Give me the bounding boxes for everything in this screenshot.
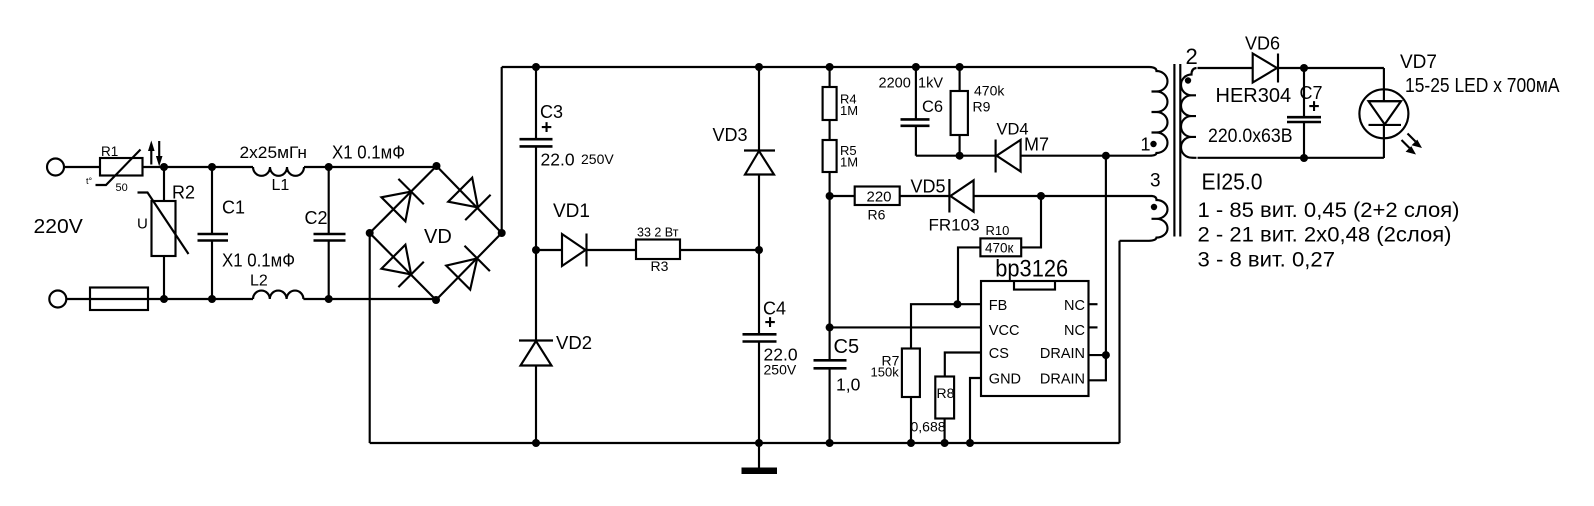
- node junction R7 bottom rail: [907, 439, 915, 447]
- svg-text:R9: R9: [973, 99, 991, 115]
- svg-text:150k: 150k: [871, 365, 900, 380]
- svg-text:FR103: FR103: [929, 216, 980, 235]
- transformer T1 core: [1174, 64, 1180, 237]
- node junction C1 bottom: [208, 295, 216, 303]
- svg-text:R3: R3: [651, 258, 669, 274]
- svg-text:R1: R1: [101, 144, 118, 159]
- svg-text:R10: R10: [986, 223, 1010, 238]
- wire drain line up to transformer: [1105, 156, 1107, 355]
- LED light arrow 1: [1408, 134, 1416, 142]
- svg-text:R6: R6: [868, 207, 886, 223]
- node junction VD3 top rail: [755, 63, 763, 71]
- svg-text:+: +: [765, 313, 776, 334]
- node junction FB: [953, 300, 961, 308]
- resistor R9: [959, 67, 961, 91]
- node junction C5 bottom rail: [826, 439, 834, 447]
- wire winding 3 return to bottom rail: [1118, 241, 1120, 443]
- svg-text:C1: C1: [222, 198, 245, 218]
- chip notch: [1014, 282, 1055, 290]
- svg-text:1: 1: [1141, 135, 1151, 155]
- node junction R9 top rail: [956, 63, 964, 71]
- diode bridge VD arm bottom-right: [436, 233, 502, 300]
- node junction C4 top: [755, 246, 763, 254]
- svg-text:NC: NC: [1064, 298, 1085, 314]
- diode VD5: [948, 179, 950, 213]
- varistor R2: [163, 167, 165, 299]
- wire bottom rail: [370, 442, 1120, 444]
- wire R4 to R5: [829, 120, 831, 140]
- node junction drain top: [1102, 152, 1110, 160]
- resistor R4: [829, 67, 831, 87]
- svg-text:22.0: 22.0: [541, 150, 575, 170]
- LED light arrow 2: [1402, 140, 1410, 148]
- svg-text:220: 220: [867, 189, 892, 206]
- wire bridge plus up to top rail: [501, 67, 503, 233]
- svg-text:1kV: 1kV: [918, 76, 943, 92]
- svg-text:C5: C5: [834, 336, 860, 358]
- svg-text:220V: 220V: [34, 216, 84, 238]
- wire VCC pin to left rail: [830, 326, 981, 328]
- node junction R4 top rail: [826, 63, 834, 71]
- svg-text:CS: CS: [989, 346, 1009, 362]
- svg-text:Х1 0.1мФ: Х1 0.1мФ: [332, 142, 405, 163]
- resistor R5: [823, 140, 837, 172]
- resistor R8: [935, 377, 954, 419]
- resistor R7: [902, 349, 920, 398]
- transformer winding 3 (aux): [1120, 196, 1168, 241]
- inductor L2: [253, 291, 303, 299]
- svg-text:R2: R2: [172, 183, 195, 203]
- node bridge bottom corner: [432, 296, 440, 304]
- node junction C1 top: [208, 163, 216, 171]
- capacitor C7: [1303, 68, 1305, 158]
- svg-text:VD2: VD2: [556, 332, 592, 353]
- svg-text:VD3: VD3: [713, 125, 748, 145]
- svg-text:+: +: [1309, 97, 1320, 118]
- svg-text:t°: t°: [86, 176, 93, 186]
- svg-text:2 - 21 вит. 2х0,48 (2слоя): 2 - 21 вит. 2х0,48 (2слоя): [1198, 222, 1452, 246]
- capacitor C5: [814, 360, 847, 368]
- svg-text:C2: C2: [305, 208, 328, 228]
- svg-text:2х25мГн: 2х25мГн: [240, 144, 308, 162]
- op-amp U1 bp3126 chip body: [981, 281, 1089, 396]
- wire output bottom: [1198, 157, 1384, 159]
- svg-text:Х1 0.1мФ: Х1 0.1мФ: [222, 250, 295, 271]
- wire L1 to bridge top: [304, 166, 437, 168]
- node bridge right corner: [498, 229, 506, 237]
- winding 2 polarity dot: [1185, 77, 1191, 83]
- svg-text:VD: VD: [424, 226, 452, 248]
- resistor R1 (thermistor 50): [100, 158, 143, 176]
- svg-text:0,688: 0,688: [911, 419, 946, 435]
- wire GND pin to bottom rail: [970, 378, 981, 443]
- resistor R6: [830, 195, 855, 197]
- wire bridge minus to bottom rail: [369, 233, 371, 443]
- svg-text:1М: 1М: [840, 155, 858, 170]
- node junction DRAIN: [1102, 351, 1110, 359]
- capacitor C6: [915, 67, 917, 156]
- node junction R9 bottom: [956, 152, 964, 160]
- node junction C2 bottom: [325, 295, 333, 303]
- node junction GND bottom rail: [966, 439, 974, 447]
- wire L2 to bridge bottom: [303, 298, 436, 300]
- diode bridge VD arm top-left: [370, 166, 437, 233]
- svg-text:U: U: [137, 216, 148, 233]
- svg-text:250V: 250V: [764, 362, 797, 378]
- ground: [758, 443, 760, 468]
- wire R1 to bridge (top filter wire): [143, 166, 254, 168]
- svg-text:L2: L2: [250, 273, 268, 290]
- node input terminal L: [47, 159, 64, 176]
- node junction R5/R6: [826, 192, 834, 200]
- node junction C6 top rail: [912, 63, 920, 71]
- svg-text:1 - 85 вит. 0,45 (2+2 слоя): 1 - 85 вит. 0,45 (2+2 слоя): [1198, 198, 1460, 222]
- svg-text:DRAIN: DRAIN: [1040, 346, 1085, 362]
- diode bridge VD arm top-right: [437, 166, 502, 233]
- svg-text:2: 2: [1186, 44, 1198, 69]
- wire CS pin to R8: [945, 353, 981, 377]
- svg-text:VD6: VD6: [1245, 34, 1280, 54]
- svg-text:GND: GND: [989, 372, 1021, 388]
- svg-text:1,0: 1,0: [836, 375, 861, 395]
- node bridge top corner: [433, 162, 441, 170]
- bridge diode bottom-left: [381, 245, 411, 275]
- diode VD6: [1253, 54, 1277, 83]
- svg-text:3: 3: [1150, 171, 1161, 192]
- svg-text:1М: 1М: [840, 103, 858, 118]
- node input terminal N: [49, 291, 66, 308]
- surge arrow up: [150, 147, 152, 165]
- capacitor C1: [211, 167, 213, 299]
- svg-text:VD5: VD5: [911, 177, 946, 197]
- wire R10 left to FB node: [958, 247, 980, 304]
- wire winding 2 to VD6: [1198, 67, 1253, 69]
- svg-text:+: +: [541, 118, 552, 139]
- diode VD1: [536, 249, 562, 251]
- svg-text:50: 50: [116, 182, 128, 194]
- svg-text:EI25.0: EI25.0: [1202, 169, 1263, 195]
- capacitor C2: [328, 167, 330, 299]
- wire terminal L to R1: [64, 166, 100, 168]
- transformer winding 1 (primary): [1150, 67, 1168, 156]
- inductor L1: [253, 167, 304, 176]
- winding 1 polarity dot: [1150, 141, 1156, 147]
- svg-text:470k: 470k: [974, 83, 1005, 99]
- resistor R10: [980, 238, 1021, 256]
- svg-text:NC: NC: [1064, 323, 1085, 339]
- node junction C4 bottom rail: [755, 439, 763, 447]
- svg-text:M7: M7: [1024, 135, 1049, 155]
- diode bridge VD arm bottom-left: [370, 233, 436, 300]
- diode VD4: [995, 140, 997, 173]
- capacitor C4: [758, 250, 760, 443]
- svg-text:15-25 LED x 700мА: 15-25 LED x 700мА: [1405, 75, 1560, 97]
- bridge diode bottom-right: [446, 258, 477, 289]
- transformer winding 2 (secondary): [1181, 68, 1197, 158]
- wire DRAIN pin 1: [1089, 354, 1106, 356]
- svg-text:HER304: HER304: [1216, 85, 1292, 107]
- svg-text:VD7: VD7: [1400, 52, 1437, 73]
- node junction C7 top: [1300, 64, 1308, 72]
- svg-text:FB: FB: [989, 298, 1008, 314]
- node junction R1/R2: [160, 163, 168, 171]
- svg-text:L1: L1: [272, 177, 290, 194]
- svg-text:DRAIN: DRAIN: [1040, 372, 1085, 388]
- wire terminal N through fuse: [67, 298, 254, 300]
- svg-text:250V: 250V: [581, 151, 614, 167]
- wire left rail down to bottom: [829, 196, 831, 443]
- svg-text:33 2 Вт: 33 2 Вт: [637, 226, 679, 240]
- wire top rail: [502, 66, 1150, 68]
- svg-text:220.0x63В: 220.0x63В: [1208, 125, 1293, 147]
- svg-text:VCC: VCC: [989, 323, 1020, 339]
- svg-text:bp3126: bp3126: [995, 256, 1068, 283]
- wire C6 bottom to VD4: [916, 155, 996, 157]
- wire FB pin to R7: [911, 304, 981, 348]
- node junction R8 bottom rail: [941, 439, 949, 447]
- node junction VD1 anode: [532, 246, 540, 254]
- svg-text:3 - 8 вит. 0,27: 3 - 8 вит. 0,27: [1198, 247, 1336, 271]
- winding 3 polarity dot: [1151, 204, 1157, 210]
- svg-text:VD1: VD1: [553, 201, 590, 222]
- fuse FU1: [90, 288, 148, 311]
- svg-text:470к: 470к: [985, 241, 1014, 256]
- svg-text:C6: C6: [922, 98, 943, 116]
- diode VD3: [758, 67, 760, 150]
- capacitor C3: [535, 67, 537, 250]
- resistor R3: [636, 240, 680, 260]
- wire NC stub 2: [1089, 326, 1098, 328]
- node junction VD5 anode: [1037, 192, 1045, 200]
- node junction C2 top: [325, 163, 333, 171]
- wire NC stub 1: [1089, 303, 1098, 305]
- bridge diode top-left: [381, 192, 411, 222]
- bridge diode top-right: [448, 178, 478, 208]
- node junction R2 bottom: [160, 295, 168, 303]
- svg-text:2200: 2200: [879, 76, 911, 92]
- surge arrow down: [158, 141, 160, 158]
- node junction C7 bottom: [1300, 154, 1308, 162]
- wire DRAIN pin 2: [1089, 355, 1106, 380]
- node junction VCC rail: [826, 323, 834, 331]
- node bridge left corner: [366, 229, 374, 237]
- LED VD7: [1359, 89, 1408, 138]
- node junction C3 top: [532, 63, 540, 71]
- node junction VD2 bottom rail: [532, 439, 540, 447]
- svg-text:R8: R8: [937, 385, 955, 401]
- diode VD2: [535, 250, 537, 340]
- wire VD5 node down to R10: [1021, 196, 1041, 247]
